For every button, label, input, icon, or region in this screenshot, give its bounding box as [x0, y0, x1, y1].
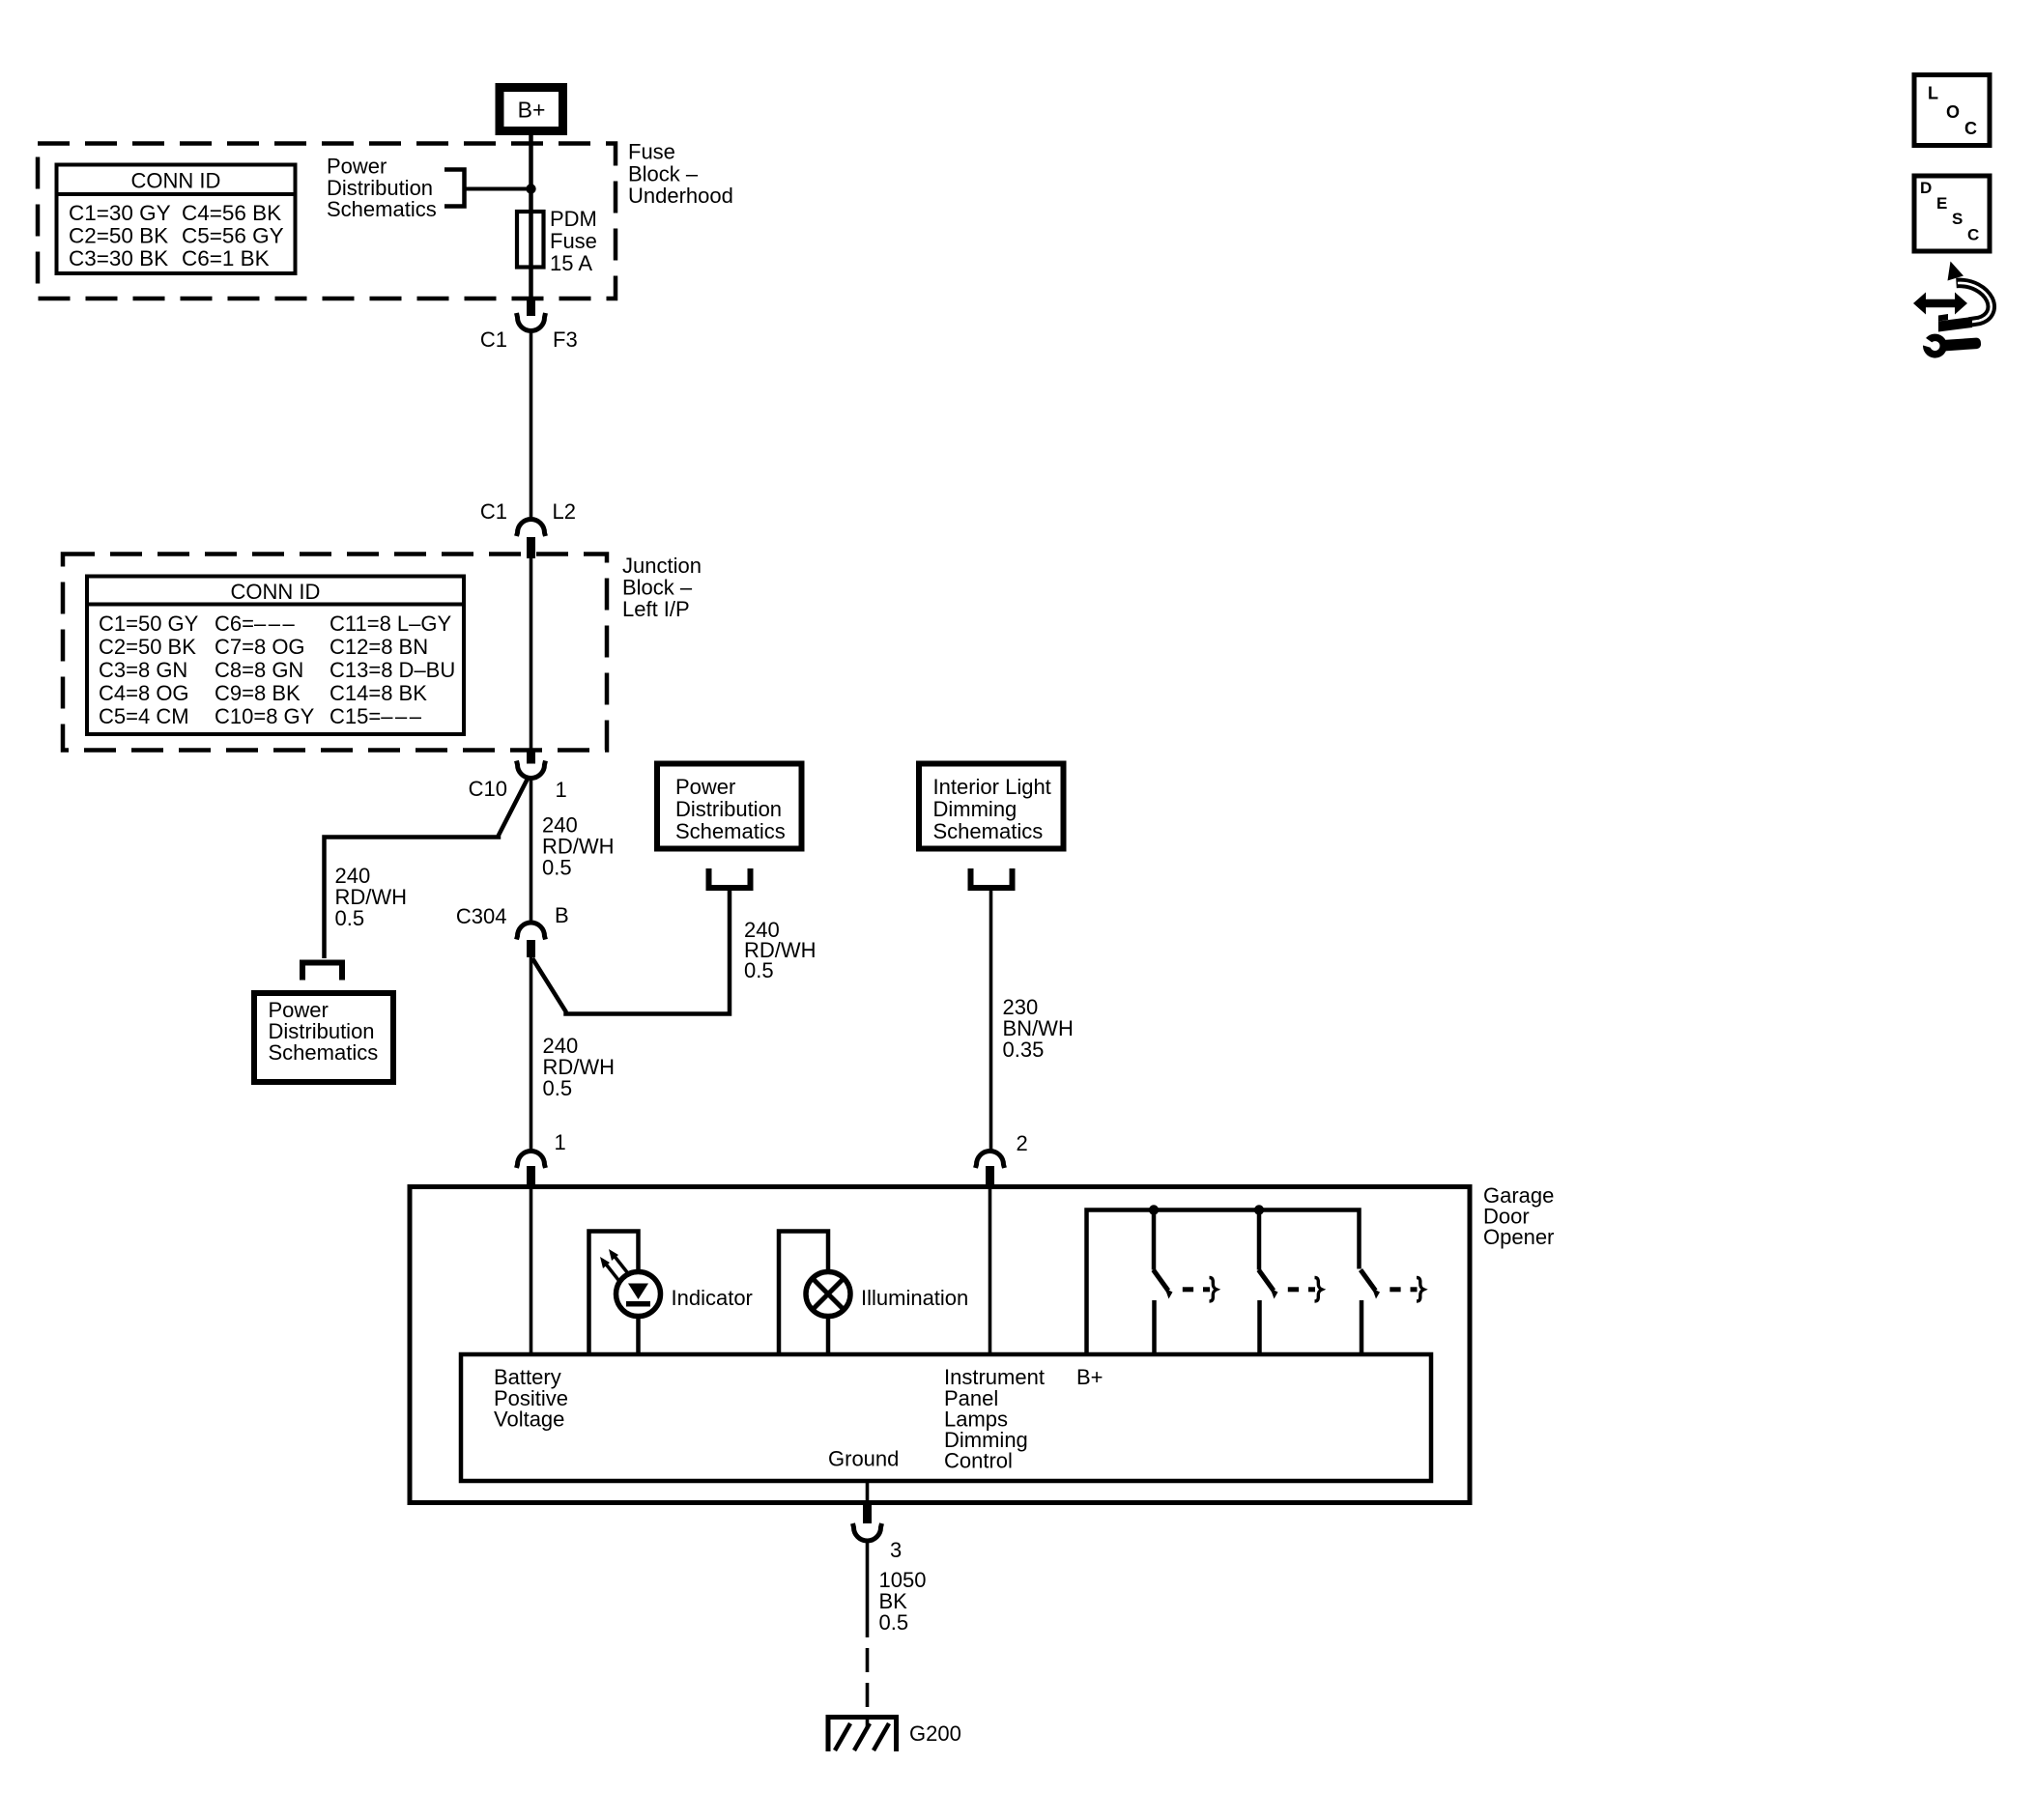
svg-text:PDM: PDM — [550, 207, 597, 231]
fuse PDM Fuse 15A — [517, 207, 597, 275]
connector C1 F3 (fuse block output) — [480, 299, 578, 352]
svg-text:C13=8 D–BU: C13=8 D–BU — [330, 658, 455, 682]
label: wire 240 RD/WH 0.5 (middle) — [542, 813, 615, 880]
svg-text:C4=8 OG: C4=8 OG — [99, 681, 189, 705]
wire: inside junction block — [530, 558, 533, 751]
LED indicator loop wire — [589, 1232, 639, 1356]
svg-text:Voltage: Voltage — [494, 1408, 564, 1432]
svg-text:B+: B+ — [518, 98, 546, 123]
off-page bracket (interior light dimming) — [971, 868, 1013, 888]
svg-text:C15=–––: C15=––– — [330, 704, 423, 728]
svg-text:C12=8 BN: C12=8 BN — [330, 635, 428, 659]
wire: interior light dimming to garage door opener pin 2 — [989, 888, 993, 1152]
label: Junction Block - Left I/P — [622, 554, 702, 621]
off-page bracket (left power distribution) — [302, 963, 342, 981]
module inner box — [461, 1354, 1431, 1481]
svg-text:0.5: 0.5 — [543, 1076, 573, 1100]
svg-text:D: D — [1920, 179, 1932, 197]
svg-text:Left I/P: Left I/P — [622, 597, 690, 621]
box: Interior Light Dimming Schematics — [919, 764, 1064, 849]
module pin labels — [494, 1365, 1103, 1473]
svg-text:Underhood: Underhood — [628, 184, 733, 208]
svg-text:C3=8 GN: C3=8 GN — [99, 658, 187, 682]
label: Garage Door Opener — [1483, 1183, 1554, 1249]
label: wire 240 RD/WH 0.5 (left branch) — [335, 864, 408, 930]
svg-text:Junction: Junction — [622, 554, 702, 578]
svg-text:0.5: 0.5 — [879, 1610, 909, 1635]
svg-text:Ground: Ground — [828, 1447, 899, 1471]
label: Power Distribution Schematics (fuse block) — [327, 155, 437, 222]
svg-text:Dimming: Dimming — [933, 797, 1017, 821]
svg-text:G200: G200 — [909, 1721, 961, 1746]
svg-text:0.35: 0.35 — [1003, 1038, 1045, 1062]
connector C1 L2 (junction block input) — [480, 499, 576, 558]
svg-text:C6=–––: C6=––– — [215, 611, 297, 636]
svg-text:C11=8 L–GY: C11=8 L–GY — [330, 611, 452, 636]
label: wire 240 RD/WH 0.5 (right branch) — [744, 918, 817, 982]
svg-text:C4=56 BK: C4=56 BK — [182, 201, 281, 225]
wire: branch C304 to right power distribution — [532, 888, 730, 1014]
svg-text:0.5: 0.5 — [542, 856, 572, 880]
svg-text:C5=56 GY: C5=56 GY — [182, 224, 284, 248]
svg-text:C5=4 CM: C5=4 CM — [99, 704, 189, 728]
svg-text:B+: B+ — [1076, 1365, 1103, 1389]
switch bus wire — [1087, 1210, 1360, 1356]
svg-text:CONN ID: CONN ID — [131, 169, 221, 193]
label: wire 240 RD/WH 0.5 (lower) — [543, 1034, 616, 1100]
connector C304 B (inline) — [456, 903, 569, 957]
svg-text:C9=8 BK: C9=8 BK — [215, 681, 301, 705]
svg-text:L2: L2 — [553, 499, 576, 524]
svg-text:Indicator: Indicator — [672, 1286, 753, 1310]
svg-text:F3: F3 — [553, 327, 578, 352]
fuse block dashed box — [38, 144, 616, 299]
junction dot switch 1 — [1149, 1205, 1159, 1214]
svg-text:Fuse: Fuse — [550, 229, 597, 253]
svg-text:L: L — [1928, 84, 1938, 103]
wire: ground pin from module — [866, 1481, 870, 1503]
wire: B+ down to PDM fuse — [529, 135, 533, 299]
icon: service tools (curved arrow) — [1948, 262, 1964, 281]
CONN ID table (fuse block) — [55, 165, 296, 274]
svg-text:Fuse: Fuse — [628, 140, 675, 164]
svg-text:C8=8 GN: C8=8 GN — [215, 658, 303, 682]
svg-text:Schematics: Schematics — [933, 819, 1044, 843]
bracket: power distribution schematics reference — [444, 170, 465, 207]
svg-text:Schematics: Schematics — [675, 819, 786, 843]
connector pin 1 (garage door opener) — [517, 1130, 566, 1189]
svg-text:Control: Control — [944, 1449, 1013, 1473]
box: Garage Door Opener — [410, 1187, 1470, 1503]
junction block dashed box — [63, 555, 607, 751]
off-page bracket (right power distribution) — [709, 868, 751, 888]
svg-text:C: C — [1964, 119, 1977, 138]
svg-text:C7=8 OG: C7=8 OG — [215, 635, 305, 659]
switch 1 (momentary) — [1154, 1210, 1218, 1356]
svg-text:2: 2 — [1017, 1131, 1028, 1155]
svg-text:1: 1 — [555, 1130, 566, 1154]
CONN ID table (junction block) — [85, 577, 466, 735]
svg-text:C304: C304 — [456, 904, 507, 928]
svg-text:C1=30 GY: C1=30 GY — [69, 201, 171, 225]
label: wire 230 BN/WH 0.35 — [1003, 995, 1074, 1062]
svg-text:C10: C10 — [469, 777, 507, 801]
wire: 1050 BK to ground — [866, 1539, 870, 1637]
svg-text:0.5: 0.5 — [744, 958, 774, 982]
svg-text:O: O — [1946, 102, 1960, 122]
svg-text:C2=50 BK: C2=50 BK — [99, 635, 196, 659]
svg-text:Distribution: Distribution — [675, 797, 782, 821]
junction dot switch 2 — [1254, 1205, 1264, 1214]
wire: C10 to C304 — [530, 778, 533, 923]
wire: C1/F3 to C1/L2 — [530, 331, 533, 520]
svg-text:C1: C1 — [480, 327, 507, 352]
icon: service tools (wrench) — [1913, 328, 1982, 359]
svg-text:CONN ID: CONN ID — [231, 580, 321, 604]
illumination lamp loop wire — [779, 1232, 828, 1356]
label: Fuse Block - Underhood — [628, 140, 733, 209]
svg-text:3: 3 — [890, 1538, 902, 1562]
label: wire 1050 BK 0.5 — [879, 1568, 927, 1635]
svg-text:15 A: 15 A — [550, 251, 592, 275]
svg-text:C10=8 GY: C10=8 GY — [215, 704, 315, 728]
icon: LOC — [1914, 75, 1990, 146]
icon: service tools (double arrow) — [1913, 262, 1992, 360]
illumination lamp — [806, 1272, 850, 1317]
connector pin 3 (ground) — [853, 1503, 903, 1562]
svg-text:C3=30 BK: C3=30 BK — [69, 246, 168, 270]
wire: pin 1 to module — [530, 1189, 533, 1355]
wire: branch C10 to left power distribution — [325, 779, 529, 958]
power symbol B+ battery feed — [500, 88, 563, 131]
icon: DESC — [1914, 176, 1990, 251]
connector pin 2 (garage door opener) — [976, 1131, 1028, 1189]
svg-text:0.5: 0.5 — [335, 906, 365, 930]
svg-text:Interior Light: Interior Light — [933, 775, 1051, 799]
switch 2 (momentary) — [1259, 1210, 1323, 1356]
wire: power distribution tap — [466, 187, 531, 191]
connector C10 1 (junction block output) — [469, 751, 567, 803]
svg-text:C1: C1 — [480, 499, 507, 524]
svg-text:1: 1 — [556, 778, 567, 802]
LED indicator — [600, 1249, 661, 1317]
svg-text:Opener: Opener — [1483, 1225, 1554, 1249]
svg-text:C6=1 BK: C6=1 BK — [182, 246, 270, 270]
svg-text:Power: Power — [327, 155, 387, 179]
svg-text:C14=8 BK: C14=8 BK — [330, 681, 427, 705]
wire: pin 2 to module — [989, 1189, 992, 1355]
junction dot (B+ feed to power distribution) — [526, 184, 535, 193]
ground G200 — [828, 1718, 961, 1752]
box: Power Distribution Schematics (right) — [657, 764, 802, 849]
switch 3 (momentary) — [1361, 1270, 1424, 1356]
wire: C304 down to garage door opener pin 1 — [530, 957, 533, 1152]
svg-text:C: C — [1967, 226, 1979, 244]
svg-text:C1=50 GY: C1=50 GY — [99, 611, 199, 636]
svg-text:S: S — [1952, 210, 1963, 228]
box: Power Distribution Schematics (left) — [254, 993, 393, 1082]
svg-text:C2=50 BK: C2=50 BK — [69, 224, 168, 248]
svg-text:Block –: Block – — [622, 576, 693, 600]
svg-text:Schematics: Schematics — [327, 197, 437, 221]
svg-text:E: E — [1936, 194, 1947, 213]
svg-text:Schematics: Schematics — [269, 1040, 379, 1065]
svg-text:Illumination: Illumination — [861, 1286, 968, 1310]
svg-text:Block –: Block – — [628, 162, 699, 186]
svg-text:B: B — [555, 903, 569, 927]
svg-text:Power: Power — [675, 775, 735, 799]
